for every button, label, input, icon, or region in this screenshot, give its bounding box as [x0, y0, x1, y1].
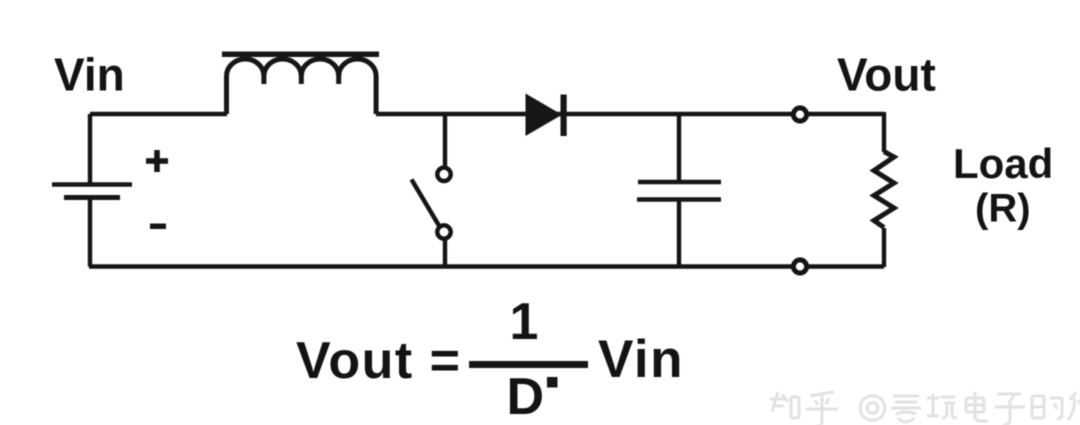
- svg-text:D: D: [507, 368, 545, 425]
- svg-text:Load: Load: [953, 140, 1053, 187]
- svg-text:Vin: Vin: [598, 330, 684, 389]
- svg-text:Vout: Vout: [837, 49, 936, 101]
- svg-text:(R): (R): [975, 187, 1031, 231]
- svg-text:Vin: Vin: [54, 49, 125, 101]
- svg-text:Vout =: Vout =: [296, 332, 461, 390]
- svg-text:1: 1: [510, 293, 539, 351]
